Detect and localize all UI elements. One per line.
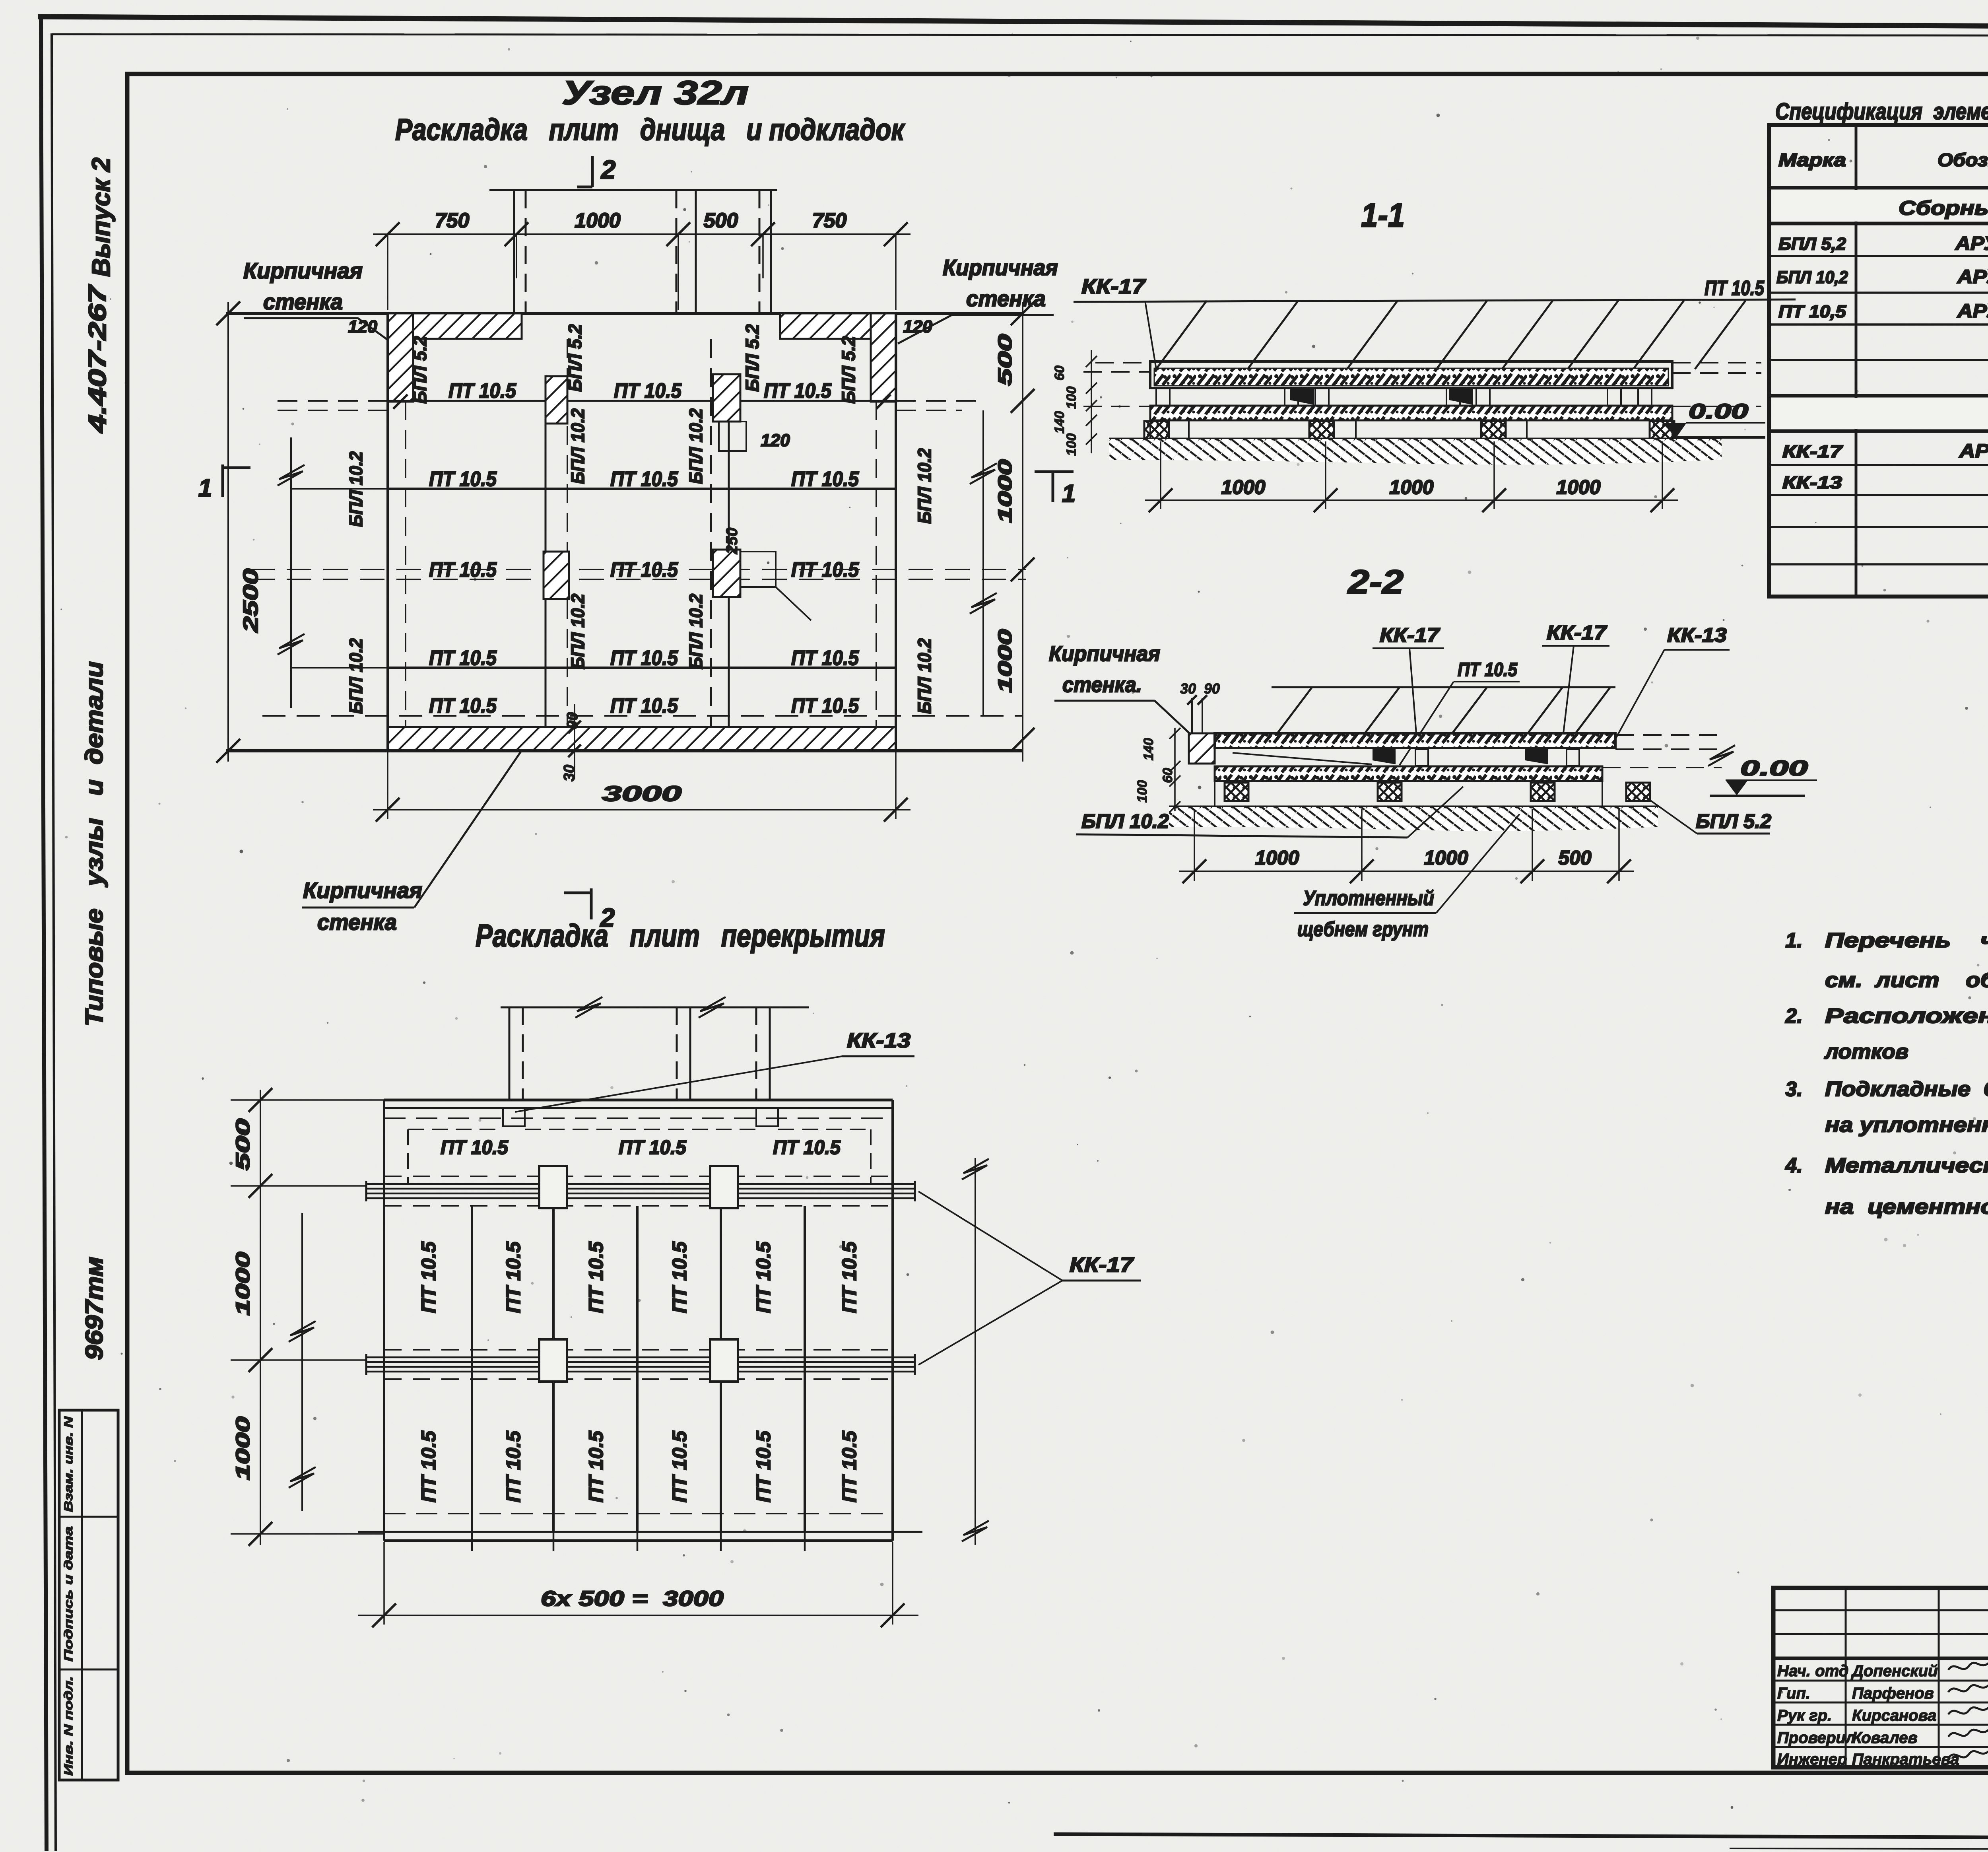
- bottom slab band 2-2: [1215, 766, 1602, 781]
- svg-text:Рук гр.: Рук гр.: [1777, 1707, 1832, 1724]
- svg-text:Перечень чертежей и общ: Перечень чертежей и общие примечания: [1825, 929, 1988, 952]
- svg-text:БПЛ 5.2: БПЛ 5.2: [838, 336, 859, 404]
- svg-text:0.00: 0.00: [1740, 756, 1808, 780]
- svg-text:ПТ 10.5: ПТ 10.5: [610, 694, 678, 717]
- inter layer details 2-2: [1233, 753, 1372, 764]
- svg-text:на уплотненный щебнем гру: на уплотненный щебнем грунт.: [1825, 1114, 1988, 1137]
- svg-text:120: 120: [903, 317, 932, 336]
- svg-text:Раскладка плит перекрытия: Раскладка плит перекрытия: [476, 918, 885, 953]
- svg-text:Уплотненный: Уплотненный: [1303, 887, 1434, 910]
- svg-text:ПТ 10.5: ПТ 10.5: [838, 1241, 860, 1313]
- svg-text:Кирпичная: Кирпичная: [303, 878, 422, 903]
- bottom dimension 6x500=3000: [358, 1615, 918, 1616]
- bearing pad D (hatched): [713, 550, 740, 597]
- spec table column lines: [1855, 125, 1858, 597]
- left wall leg hatch: [388, 313, 413, 402]
- svg-text:9697тм: 9697тм: [81, 1257, 108, 1360]
- dashed plate outline (plan2 top band): [407, 1129, 409, 1184]
- svg-text:Металлические марки уклад: Металлические марки укладываются: [1825, 1154, 1988, 1177]
- svg-text:стенка: стенка: [317, 909, 397, 935]
- svg-text:Нач. отд: Нач. отд: [1777, 1662, 1848, 1680]
- svg-text:КК-17: КК-17: [1782, 442, 1843, 461]
- svg-text:ПТ 10,5: ПТ 10,5: [1778, 302, 1846, 321]
- paper left edge double line: [41, 16, 47, 1851]
- svg-text:3000: 3000: [602, 782, 681, 806]
- svg-text:90: 90: [564, 712, 581, 729]
- svg-text:Подпись и дата: Подпись и дата: [62, 1526, 75, 1662]
- svg-text:Инв. N подл.: Инв. N подл.: [62, 1676, 75, 1776]
- svg-text:ПТ 10.5: ПТ 10.5: [448, 379, 516, 402]
- svg-text:ПТ 10.5: ПТ 10.5: [791, 694, 859, 717]
- svg-text:ПТ 10.5: ПТ 10.5: [441, 1136, 509, 1158]
- dashed extensions left of top band: [1083, 371, 1150, 373]
- svg-text:ПТ 10.5: ПТ 10.5: [429, 558, 497, 581]
- svg-text:1: 1: [1062, 480, 1076, 507]
- plan2 bottom double line: [358, 1531, 922, 1533]
- right wall leg hatch: [871, 313, 896, 402]
- reference top line: [1074, 299, 1796, 302]
- right dashed extensions 2-2: [1615, 734, 1722, 736]
- svg-text:Панкратьева: Панкратьева: [1852, 1751, 1959, 1768]
- svg-text:ПТ 10.5: ПТ 10.5: [1705, 277, 1765, 300]
- ground line 2-2: [1169, 806, 1658, 808]
- svg-text:1000: 1000: [1221, 476, 1265, 498]
- svg-text:БПЛ 5.2: БПЛ 5.2: [565, 324, 585, 392]
- section mark 2 (top): [591, 156, 594, 187]
- centre axis dashed pair: [250, 569, 1026, 570]
- svg-text:Кирпичная: Кирпичная: [943, 255, 1058, 280]
- inner dashed verticals left/right: [405, 401, 406, 727]
- upper channel walls (plan2): [509, 1007, 511, 1100]
- svg-text:100: 100: [1064, 433, 1079, 456]
- svg-text:БПЛ 10.2: БПЛ 10.2: [685, 408, 706, 484]
- svg-text:ПТ 10.5: ПТ 10.5: [585, 1241, 607, 1313]
- svg-text:ПТ 10.5: ПТ 10.5: [668, 1430, 691, 1502]
- svg-text:ПТ 10.5: ПТ 10.5: [610, 558, 678, 581]
- plate joint verticals (plan2): [471, 1206, 473, 1532]
- support strip A lines: [545, 401, 547, 727]
- paper top edge second line: [52, 34, 1988, 36]
- plate rect near pad D with dim 250: [740, 552, 776, 587]
- svg-text:1.: 1.: [1785, 929, 1802, 952]
- svg-text:ПТ 10.5: ПТ 10.5: [429, 647, 497, 670]
- svg-text:ПТ 10.5: ПТ 10.5: [764, 379, 832, 402]
- svg-text:ПТ 10.5: ПТ 10.5: [1458, 659, 1518, 680]
- bottom slab band: [1150, 406, 1672, 420]
- svg-text:КК-17: КК-17: [1380, 624, 1440, 646]
- svg-text:БПЛ 10.2: БПЛ 10.2: [567, 408, 588, 484]
- brick wall block (2-2): [1189, 733, 1215, 764]
- small rect under pad B with dim 120: [719, 422, 746, 451]
- svg-text:120: 120: [348, 317, 377, 336]
- svg-text:ПТ 10.5: ПТ 10.5: [502, 1430, 524, 1502]
- svg-text:250: 250: [723, 528, 741, 555]
- svg-text:ПТ 10.5: ПТ 10.5: [838, 1430, 860, 1502]
- svg-text:БПЛ 10.2: БПЛ 10.2: [346, 451, 366, 527]
- svg-text:Узел 32л: Узел 32л: [562, 74, 749, 111]
- plan2 left/right edges: [383, 1100, 385, 1541]
- top dimension line 750/1000/500/750: [373, 233, 911, 235]
- dashed line below top edge: [384, 1117, 893, 1119]
- svg-text:ПТ 10.5: ПТ 10.5: [752, 1430, 775, 1502]
- svg-text:1000: 1000: [995, 459, 1016, 523]
- svg-text:Раскладка плит днища и п: Раскладка плит днища и подкладок: [395, 113, 905, 147]
- svg-text:Спецификация элементов, замар: Спецификация элементов, замаркированных …: [1775, 99, 1988, 124]
- dashed extensions right of top band: [1672, 362, 1761, 363]
- short verticals to ground: [1149, 420, 1151, 439]
- svg-text:Кирпичная: Кирпичная: [1049, 642, 1160, 666]
- svg-text:500: 500: [233, 1119, 254, 1170]
- svg-text:КК-13: КК-13: [1667, 624, 1727, 646]
- svg-text:на цементном растворе М: на цементном растворе М100: [1825, 1195, 1988, 1218]
- svg-text:60: 60: [1052, 365, 1067, 381]
- svg-text:140: 140: [1052, 411, 1067, 434]
- section mark 1 (right, T1): [1035, 470, 1074, 473]
- strip pads (white): [539, 1166, 567, 1208]
- left dimension 2500: [227, 302, 229, 762]
- svg-text:БПЛ 5.2: БПЛ 5.2: [1696, 810, 1771, 832]
- svg-text:ПТ 10.5: ПТ 10.5: [417, 1241, 440, 1313]
- bottom dimension 3000: [373, 809, 911, 810]
- svg-text:Взам. инв. N: Взам. инв. N: [62, 1416, 75, 1512]
- svg-text:БПЛ 10.2: БПЛ 10.2: [1081, 810, 1169, 832]
- svg-text:ПТ 10.5: ПТ 10.5: [791, 468, 859, 491]
- ground pads BPL (cross hatched): [1144, 421, 1169, 439]
- reference line 2-2: [1272, 686, 1615, 688]
- slab removal diagonals: [1156, 301, 1207, 369]
- row line 1: [388, 400, 896, 402]
- svg-text:2-2: 2-2: [1347, 563, 1404, 600]
- left extension line with breaks: [290, 437, 292, 708]
- svg-text:ПТ 10.5: ПТ 10.5: [429, 694, 497, 717]
- svg-text:1000: 1000: [233, 1252, 254, 1316]
- bearing pad A (hatched): [546, 376, 567, 424]
- svg-text:Обозначение: Обозначение: [1938, 150, 1988, 170]
- svg-text:Парфенов: Парфенов: [1852, 1685, 1934, 1702]
- KK-17 strip 1: [366, 1183, 915, 1185]
- svg-text:ПТ 10.5: ПТ 10.5: [610, 468, 678, 491]
- plan bottom line: [226, 749, 1023, 752]
- svg-text:120: 120: [761, 431, 790, 450]
- top wall hatch band right: [780, 313, 896, 339]
- joint wedges: [1290, 389, 1314, 405]
- spec table row lines: [1769, 186, 1988, 190]
- svg-text:щебнем грунт: щебнем грунт: [1297, 918, 1429, 941]
- section mark 2 (bottom): [590, 888, 593, 919]
- svg-text:4.407-267: 4.407-267: [84, 284, 111, 434]
- svg-text:ПТ 10.5: ПТ 10.5: [619, 1136, 687, 1158]
- svg-text:1000: 1000: [575, 209, 621, 232]
- svg-text:Марка: Марка: [1778, 150, 1846, 170]
- right extension vertical (plan2): [975, 1158, 976, 1545]
- ground hatch: [1109, 439, 1722, 464]
- svg-text:750: 750: [812, 209, 847, 232]
- svg-text:стенка: стенка: [263, 289, 343, 314]
- svg-text:БПЛ 10.2: БПЛ 10.2: [914, 448, 935, 524]
- svg-text:ПТ 10.5: ПТ 10.5: [791, 558, 859, 581]
- diagonals 2-2: [1278, 687, 1312, 733]
- svg-text:стенка: стенка: [966, 286, 1046, 311]
- svg-text:2: 2: [600, 155, 616, 184]
- svg-text:90: 90: [1204, 680, 1220, 697]
- title block verticals: [1845, 1588, 1847, 1767]
- svg-text:Допенский: Допенский: [1851, 1662, 1938, 1680]
- svg-text:ПТ 10.5: ПТ 10.5: [610, 647, 678, 670]
- svg-text:КК-13: КК-13: [847, 1029, 911, 1052]
- KK-13 notches: [503, 1108, 525, 1126]
- svg-text:6х 500 = 3000: 6х 500 = 3000: [541, 1587, 724, 1611]
- support strip B lines: [710, 339, 712, 727]
- top slab band: [1150, 361, 1672, 388]
- svg-text:БПЛ 5.2: БПЛ 5.2: [410, 336, 430, 404]
- svg-text:ПТ 10.5: ПТ 10.5: [791, 647, 859, 670]
- svg-text:ПТ 10.5: ПТ 10.5: [773, 1136, 841, 1158]
- svg-text:ПТ 10.5: ПТ 10.5: [502, 1241, 524, 1313]
- svg-text:КК-17: КК-17: [1547, 622, 1607, 644]
- right dimension chain 500/1000/1000: [1022, 302, 1023, 762]
- svg-text:1-1: 1-1: [1361, 196, 1405, 234]
- left extension line with breaks (plan2): [301, 1213, 303, 1511]
- svg-text:3.: 3.: [1785, 1078, 1802, 1101]
- svg-text:Выпуск 2: Выпуск 2: [87, 157, 115, 277]
- svg-text:КК-17: КК-17: [1070, 1253, 1134, 1277]
- svg-text:2500: 2500: [239, 569, 262, 633]
- svg-text:БПЛ 10.2: БПЛ 10.2: [346, 638, 366, 714]
- title block outline: [1773, 1588, 1988, 1767]
- svg-text:Ковалев: Ковалев: [1852, 1729, 1918, 1747]
- svg-text:750: 750: [435, 209, 470, 232]
- svg-text:30: 30: [1180, 680, 1196, 697]
- svg-text:КК-13: КК-13: [1782, 473, 1842, 492]
- svg-text:АРУ2- 95: АРУ2- 95: [1957, 266, 1988, 288]
- svg-text:2.: 2.: [1785, 1005, 1802, 1028]
- right extension line with breaks: [982, 410, 984, 716]
- plan2 top edge double line: [384, 1099, 893, 1102]
- svg-text:лотков: лотков: [1824, 1040, 1908, 1063]
- svg-text:ПТ 10.5: ПТ 10.5: [417, 1430, 440, 1502]
- ground line: [1109, 438, 1722, 441]
- upper channel cap line (plan2): [501, 1007, 809, 1009]
- svg-text:БПЛ 5,2: БПЛ 5,2: [1778, 234, 1846, 254]
- svg-text:БПЛ 10.2: БПЛ 10.2: [567, 594, 588, 669]
- svg-text:БПЛ 10.2: БПЛ 10.2: [914, 638, 935, 714]
- KK-17 strip 2: [366, 1356, 915, 1358]
- svg-text:БПЛ 10.2: БПЛ 10.2: [685, 594, 706, 669]
- svg-text:ПТ 10.5: ПТ 10.5: [614, 379, 682, 402]
- svg-text:Сборные железобетонные эл: Сборные железобетонные элементы: [1899, 197, 1988, 219]
- plan left edge: [386, 313, 389, 751]
- svg-text:БПЛ 5.2: БПЛ 5.2: [742, 324, 763, 392]
- bearing pad B (hatched): [713, 374, 740, 422]
- paper bottom right line: [1054, 1834, 1988, 1839]
- svg-text:АРУ2- 91: АРУ2- 91: [1957, 301, 1988, 322]
- leader KK-17: [1145, 301, 1156, 369]
- dimension 1000/1000/500 (2-2): [1179, 871, 1634, 872]
- svg-text:Кирпичная: Кирпичная: [243, 258, 363, 283]
- svg-text:КК-17: КК-17: [1081, 275, 1146, 298]
- svg-text:1: 1: [198, 474, 212, 502]
- svg-text:1000: 1000: [1389, 476, 1433, 498]
- svg-text:1000: 1000: [233, 1417, 254, 1480]
- svg-text:4.: 4.: [1785, 1154, 1802, 1177]
- svg-text:1000: 1000: [1255, 847, 1299, 869]
- row line 2: [388, 488, 896, 490]
- svg-text:ПТ 10.5: ПТ 10.5: [429, 468, 497, 491]
- svg-text:60: 60: [1160, 768, 1175, 783]
- bearing pad C (hatched): [544, 552, 569, 599]
- svg-text:500: 500: [1558, 847, 1592, 869]
- svg-text:0.00: 0.00: [1689, 400, 1748, 423]
- upper channel cap line: [489, 189, 777, 191]
- section mark 1 (left): [221, 464, 224, 497]
- dimension line 1000x3 (section 1-1): [1145, 499, 1678, 501]
- title block horizontals: [1773, 1609, 1988, 1611]
- svg-text:стенка.: стенка.: [1062, 673, 1142, 697]
- svg-text:АРУ2-86: АРУ2-86: [1959, 441, 1988, 462]
- brusok blocks between slabs: [1156, 388, 1170, 406]
- sidebar stamp table: [59, 1410, 118, 1780]
- svg-text:ПТ 10.5: ПТ 10.5: [752, 1241, 775, 1313]
- bottom dashed line (plan2): [384, 1513, 893, 1514]
- svg-text:Проверил: Проверил: [1777, 1729, 1856, 1747]
- svg-text:Кирсанова: Кирсанова: [1852, 1707, 1936, 1724]
- svg-text:Расположение узла см. пл: Расположение узла см. план раскладки: [1825, 1005, 1988, 1028]
- svg-text:Типовые узлы и детали: Типовые узлы и детали: [81, 661, 108, 1026]
- svg-text:ПТ 10.5: ПТ 10.5: [668, 1241, 691, 1313]
- svg-text:1000: 1000: [1556, 476, 1600, 498]
- svg-text:1000: 1000: [995, 629, 1016, 693]
- svg-text:140: 140: [1141, 738, 1156, 761]
- svg-text:Гип.: Гип.: [1777, 1685, 1810, 1702]
- hidden dashed line above bottom wall: [262, 715, 1022, 717]
- bottom wall hatch band: [388, 727, 896, 751]
- left dimension chain (plan2) 500/1000/1000: [260, 1090, 261, 1545]
- svg-text:500: 500: [704, 209, 738, 232]
- svg-text:100: 100: [1064, 387, 1079, 409]
- svg-text:1000: 1000: [1424, 847, 1468, 869]
- upper channel wall lines: [513, 190, 515, 313]
- row line 3: [388, 667, 896, 669]
- pads 2-2: [1225, 783, 1248, 801]
- svg-text:АРУ2 - 97: АРУ2 - 97: [1955, 233, 1988, 254]
- svg-text:см. лист общих данных: см. лист общих данных: [1825, 969, 1988, 992]
- svg-text:100: 100: [1135, 780, 1150, 803]
- paper top edge line: [38, 17, 1988, 29]
- svg-text:500: 500: [995, 334, 1016, 386]
- svg-text:Подкладные бруски БПЛ 5,2: Подкладные бруски БПЛ 5,2 и БПЛ 10,2 укл…: [1825, 1078, 1988, 1101]
- plan top wall line: [226, 312, 1023, 315]
- svg-text:ПТ 10.5: ПТ 10.5: [585, 1430, 607, 1502]
- top wall hatch band left: [388, 313, 522, 339]
- svg-text:Инженер: Инженер: [1777, 1751, 1847, 1768]
- svg-text:БПЛ 10,2: БПЛ 10,2: [1776, 268, 1848, 287]
- spec table outline: [1769, 125, 1988, 597]
- plan right edge: [895, 313, 897, 751]
- top slab band 2-2: [1215, 733, 1615, 748]
